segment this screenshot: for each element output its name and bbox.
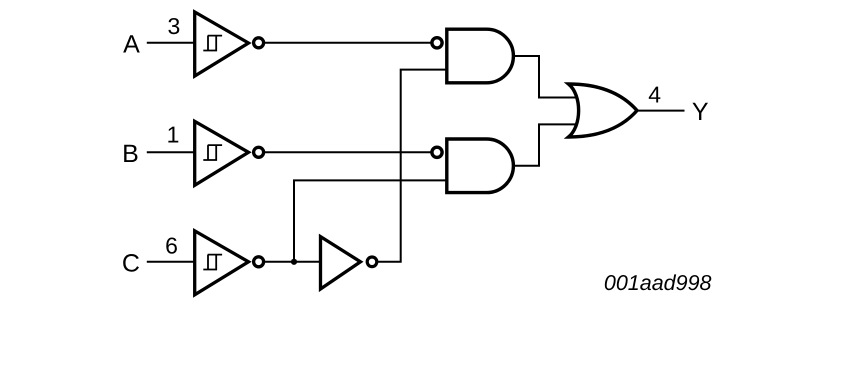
inverting buffer U6: [321, 237, 377, 289]
schmitt inverter U2 (input B): [195, 121, 264, 185]
junction dot: [291, 259, 297, 265]
wire U7 output Y: [637, 110, 685, 112]
schmitt inverter U1 (input A): [195, 12, 264, 76]
wire U1 output to U4 input bubble: [258, 42, 437, 44]
svg-text:B: B: [122, 140, 139, 168]
wire A input: [147, 42, 195, 44]
schmitt inverter U3 (input C): [195, 231, 264, 295]
wire U5 output to U7 lower input: [513, 124, 577, 165]
svg-text:C: C: [122, 249, 140, 277]
svg-text:1: 1: [167, 122, 180, 148]
wire buffer U6 output to U4 lower input: [378, 70, 447, 262]
wire B input: [147, 151, 195, 153]
wire junction to U5 lower input: [294, 180, 447, 261]
svg-text:3: 3: [168, 13, 181, 39]
svg-text:001aad998: 001aad998: [604, 271, 712, 295]
svg-text:6: 6: [165, 233, 178, 259]
svg-text:Y: Y: [692, 98, 709, 126]
svg-text:4: 4: [648, 82, 661, 108]
OR gate U7: [569, 84, 638, 137]
svg-text:A: A: [123, 30, 140, 58]
wire U3 output to buffer U6 input: [258, 261, 322, 263]
wire U4 output to U7 upper input: [513, 56, 577, 98]
AND gate U4: [432, 29, 514, 83]
AND gate U5: [432, 139, 513, 193]
wire U2 output to U5 input bubble: [258, 151, 437, 153]
wire C input: [147, 261, 195, 263]
